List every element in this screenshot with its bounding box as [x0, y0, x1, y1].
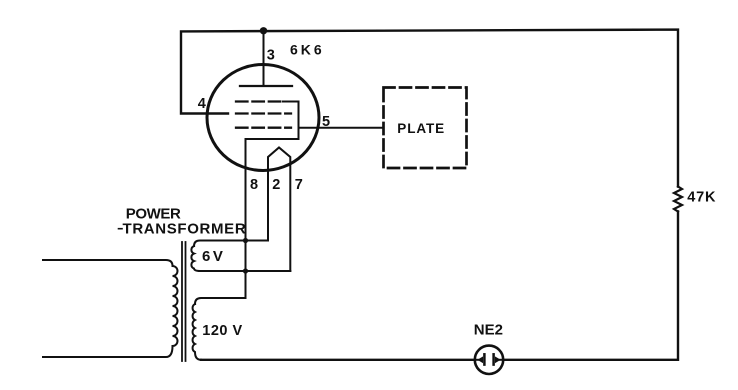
svg-text:PLATE: PLATE: [397, 121, 445, 136]
svg-text:3: 3: [267, 48, 275, 64]
svg-text:2: 2: [272, 177, 280, 193]
tube beam plates (house shape), pin2 and pin7 leads: [268, 148, 290, 272]
label TRANSFORMER leading dash: [119, 228, 123, 230]
svg-text:47K: 47K: [687, 189, 716, 205]
tube grid dashes row2: [236, 112, 291, 114]
wire pin3 stub: [263, 31, 265, 86]
svg-text:6K6: 6K6: [290, 42, 325, 58]
resistor R1 47K zigzag: [674, 187, 682, 212]
svg-text:NE2: NE2: [474, 322, 503, 339]
neon lamp NE2 envelope: [475, 346, 503, 374]
svg-text:8: 8: [250, 177, 258, 193]
svg-text:TRANSFORMER: TRANSFORMER: [123, 221, 247, 238]
plate test box (dashed): [384, 88, 467, 169]
wire 6V bottom lead: [200, 270, 290, 272]
tube grid dashes row1: [236, 100, 281, 102]
svg-text:7: 7: [295, 177, 303, 193]
svg-text:120 V: 120 V: [202, 323, 242, 339]
wire cathode: pin8 down and to 120V winding: [195, 102, 299, 305]
transformer T1 120V secondary winding: [193, 304, 201, 360]
wire bottom rail right of NE2: [503, 212, 678, 360]
wire top rail with left drop and right drop: [181, 30, 678, 187]
wire crossing blob at pin8/6V-bottom: [243, 268, 248, 273]
tube grid dashes row3: [236, 127, 291, 129]
node B+ junction dot: [260, 27, 267, 34]
neon lamp right lead wedge: [500, 359, 503, 361]
transformer T1 core line left: [181, 242, 183, 361]
neon lamp electrode right bar: [492, 354, 495, 364]
wire crossing blob at pin8/6V-top: [243, 238, 248, 243]
wire bottom rail left of NE2: [201, 359, 475, 361]
transformer T1 6V secondary winding: [191, 246, 200, 271]
wire pin5 to plate box: [299, 127, 384, 129]
transformer T1 primary winding with leads: [43, 260, 178, 357]
neon lamp electrode left bar: [483, 354, 486, 364]
neon lamp left lead wedge: [475, 359, 478, 361]
transformer T1 core line right: [185, 242, 187, 361]
svg-text:5: 5: [322, 114, 330, 130]
svg-text:4: 4: [198, 96, 206, 112]
tube V1 envelope: [207, 65, 319, 171]
svg-text:6V: 6V: [202, 248, 225, 265]
tube plate top line: [240, 85, 292, 87]
wire 6V top lead: [194, 241, 268, 247]
